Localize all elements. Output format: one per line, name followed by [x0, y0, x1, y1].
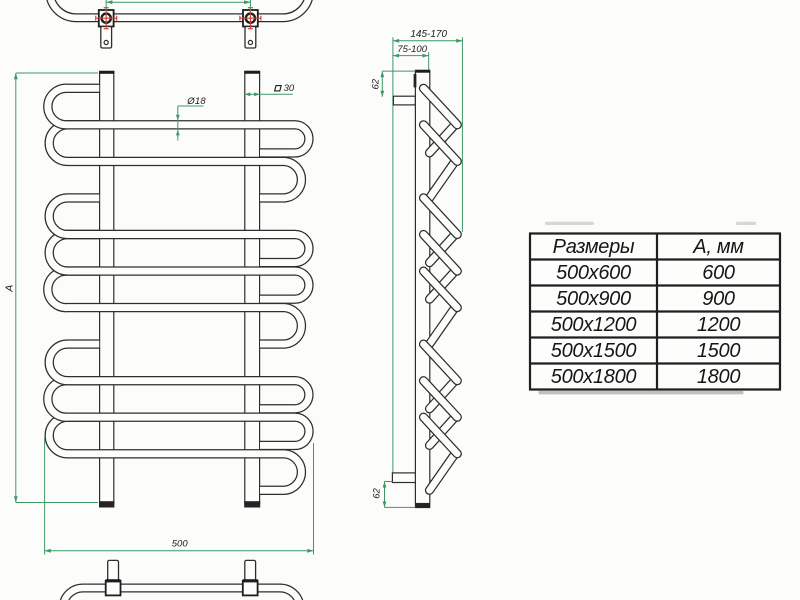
size table	[530, 234, 780, 390]
svg-text:1800: 1800	[697, 366, 740, 388]
dimension A (overall height)	[15, 73, 17, 503]
svg-text:500х1500: 500х1500	[551, 340, 637, 362]
dimension square 30 (post profile)	[245, 93, 293, 95]
side view: post bottom cap	[415, 504, 430, 509]
svg-text:30: 30	[284, 83, 295, 94]
red crosshair centerlines	[240, 8, 261, 29]
svg-text:62: 62	[372, 488, 383, 499]
svg-text:62: 62	[371, 78, 382, 89]
dimension Ø18 (tube diameter) leader	[177, 106, 179, 141]
svg-text:500х900: 500х900	[556, 288, 631, 310]
side view rung	[430, 125, 456, 153]
red crosshair centerlines	[96, 8, 117, 29]
wall bracket (bottom view) at x=250.2	[245, 560, 256, 580]
left post foot	[99, 501, 114, 507]
side view: 75-100 dimension (wall to post)	[428, 52, 430, 72]
side view wall / extension line	[392, 37, 394, 473]
svg-text:Ø18: Ø18	[186, 96, 206, 107]
front view: left vertical post	[100, 72, 114, 504]
right post foot	[244, 501, 260, 507]
side view rung	[430, 381, 456, 409]
side view rung	[430, 161, 456, 198]
svg-text:600: 600	[702, 262, 735, 284]
tube unit 6: S-bent tube rung	[49, 344, 309, 409]
mounting hole circle	[246, 14, 255, 23]
svg-text:900: 900	[702, 288, 735, 310]
dimension 500 (width)	[44, 438, 46, 555]
tube unit 4: S-bent tube rung	[49, 235, 309, 300]
svg-text:75-100: 75-100	[397, 44, 427, 55]
svg-text:1200: 1200	[697, 314, 740, 336]
side view rung	[430, 271, 456, 299]
svg-text:145-170: 145-170	[410, 29, 447, 40]
side view: bottom bracket stem	[392, 473, 415, 483]
front view: right vertical post	[245, 72, 260, 504]
side view: top bracket stem	[393, 96, 415, 105]
tube unit 1 (upper S-tube): S-bent tube rung	[48, 88, 309, 153]
top view: top rail tube seen from above	[50, 0, 310, 18]
bottom view: bottom rail tube seen from below	[63, 588, 300, 600]
tube unit 2: S-bent tube rung (lower, with return bend)	[49, 125, 301, 198]
svg-text:А, мм: А, мм	[692, 236, 744, 258]
scan shadow artifacts around table	[539, 391, 744, 395]
side view: 62 dimension bottom	[384, 482, 386, 508]
tube unit 8: S-bent tube rung (lower, with return bend)	[49, 417, 301, 490]
svg-text:1500: 1500	[697, 340, 740, 362]
svg-text:Размеры: Размеры	[553, 236, 635, 258]
side view: bracket clamp plate (dark)	[414, 74, 417, 87]
svg-text:500х1800: 500х1800	[551, 366, 637, 388]
svg-text:500: 500	[172, 538, 189, 549]
side view rung	[430, 417, 456, 445]
svg-text:А: А	[4, 285, 16, 293]
side view: post	[415, 72, 429, 504]
tube unit 3: S-bent tube rung	[49, 198, 309, 263]
side view rung	[430, 235, 456, 263]
green dimension between bracket hole axes	[105, 0, 107, 12]
side view: 145-170 dimension (wall to outer tube)	[461, 37, 463, 232]
svg-text:500х600: 500х600	[556, 262, 631, 284]
bracket stem with screw hole	[245, 27, 256, 49]
mounting hole circle	[102, 14, 111, 23]
wall bracket block (top view) at x=250.4	[243, 10, 258, 27]
side view rung	[430, 308, 456, 345]
bracket stem with screw hole	[101, 27, 112, 49]
wall bracket (bottom view) at x=113.1	[108, 560, 119, 580]
tube unit 7: S-bent tube rung	[48, 381, 309, 446]
side view rung	[430, 454, 456, 491]
tube unit 5: S-bent tube rung (lower, with return bend)	[48, 271, 302, 344]
side view: 62 dimension top	[381, 71, 383, 97]
wall bracket block (top view) at x=106.2	[99, 10, 114, 27]
svg-text:500х1200: 500х1200	[551, 314, 637, 336]
